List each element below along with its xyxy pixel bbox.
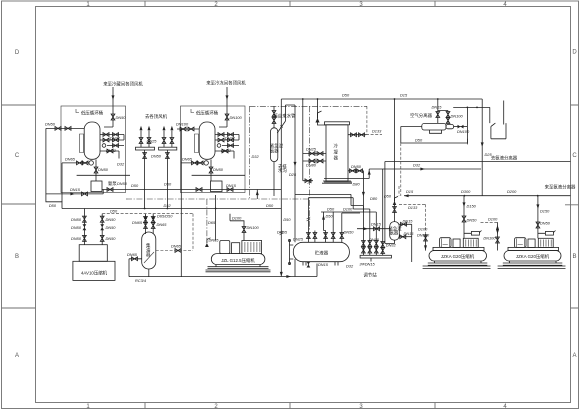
drop pipe left of unit2 xyxy=(180,129,182,277)
manifold drop xyxy=(370,258,372,262)
V2 DN65 drain valves xyxy=(181,161,204,165)
ammonia pump P2 xyxy=(211,181,223,192)
svg-text:A: A xyxy=(572,353,576,359)
release vessel right mid line xyxy=(399,235,411,239)
ammonia pump P1 xyxy=(91,181,102,192)
svg-text:D32: D32 xyxy=(346,264,354,269)
header to regulator area xyxy=(321,211,376,213)
riser to header e xyxy=(342,213,360,231)
pipe drop to unit 2 xyxy=(219,87,229,127)
svg-text:DN32: DN32 xyxy=(106,148,117,153)
G12.5 discharge riser DN100 xyxy=(230,214,246,241)
svg-text:空气分离器: 空气分离器 xyxy=(410,112,433,119)
svg-text:D100: D100 xyxy=(232,216,242,221)
unit 1 label 低压循环桶 xyxy=(76,109,104,117)
V1 left inlet DN50 valves xyxy=(46,126,84,130)
liquid receiver 贮液器 xyxy=(293,242,349,261)
left standpipe to suction main xyxy=(46,128,62,208)
svg-text:D200: D200 xyxy=(507,189,517,194)
regulator column 4 xyxy=(381,169,385,255)
svg-text:DN65: DN65 xyxy=(65,157,76,162)
svg-text:DN25: DN25 xyxy=(147,139,158,144)
svg-text:C: C xyxy=(15,153,20,159)
svg-text:DN50: DN50 xyxy=(467,218,478,223)
air separator drop from header xyxy=(436,99,450,124)
air separator right outlet valve xyxy=(454,125,468,129)
vessel slant connection xyxy=(277,105,296,194)
svg-text:DN65: DN65 xyxy=(127,252,138,257)
unit 2 label 低压循环桶 xyxy=(191,109,219,117)
vessel V1 low-pressure circulation drum xyxy=(84,122,100,159)
unit 1 enclosure box xyxy=(61,106,126,193)
condenser right outlet DN50 xyxy=(348,169,365,212)
svg-text:DN50: DN50 xyxy=(351,164,362,169)
left zone ticks xyxy=(2,105,36,308)
G20 no.1 suction drop D150 xyxy=(462,196,466,239)
svg-text:D15: D15 xyxy=(406,189,414,194)
P1 discharge line xyxy=(102,188,281,192)
condenser equalizing line D133 xyxy=(348,133,382,137)
svg-text:DN32: DN32 xyxy=(225,136,236,141)
equalize riser with arrow xyxy=(322,212,326,231)
V2 level gauge xyxy=(195,134,199,153)
svg-text:DN15: DN15 xyxy=(432,105,443,110)
dash-dot machine-room boundary horizontal xyxy=(250,105,368,107)
water tank xyxy=(491,101,506,139)
svg-text:DN50: DN50 xyxy=(106,225,117,230)
svg-text:冷: 冷 xyxy=(334,143,339,150)
svg-text:D32: D32 xyxy=(117,162,125,167)
svg-text:氨器: 氨器 xyxy=(390,229,399,236)
svg-text:DN100: DN100 xyxy=(483,236,496,241)
label 紧急泄氨器 on vessel xyxy=(270,143,284,155)
4AV10 valve column right xyxy=(100,214,104,245)
condenser left DN80 line xyxy=(303,159,326,163)
svg-text:D32: D32 xyxy=(413,163,421,168)
receiver top stub c xyxy=(324,231,328,243)
receiver drain xyxy=(281,262,317,279)
svg-text:DN50: DN50 xyxy=(540,221,551,226)
riser to header d xyxy=(332,212,334,231)
receiver inlet riser D50 xyxy=(294,194,296,242)
svg-text:D100: D100 xyxy=(418,227,428,232)
svg-text:2: 2 xyxy=(214,2,218,8)
manifold drop valves xyxy=(143,150,147,209)
svg-text:B: B xyxy=(572,254,576,260)
svg-text:D50: D50 xyxy=(326,214,334,219)
receiver top stub d xyxy=(331,231,335,243)
svg-text:DN15: DN15 xyxy=(403,218,414,223)
svg-text:D50: D50 xyxy=(266,203,274,208)
angle valve on G12.5 xyxy=(205,238,211,247)
svg-text:1: 1 xyxy=(86,2,90,8)
svg-text:A: A xyxy=(15,353,19,359)
svg-text:DN50: DN50 xyxy=(106,236,117,241)
V1 right valve cluster xyxy=(100,133,124,159)
labels DN50 right column xyxy=(106,217,117,241)
svg-text:接自来水管: 接自来水管 xyxy=(274,113,297,120)
svg-text:DN50: DN50 xyxy=(45,122,56,127)
P2 left valve xyxy=(196,188,202,192)
compressor discharge riser xyxy=(280,99,284,277)
svg-text:B: B xyxy=(15,254,19,260)
screw compressor JZKA G20 no.1 xyxy=(423,238,491,269)
air separator body xyxy=(422,123,454,133)
G12.5 suction drop xyxy=(215,195,217,241)
svg-text:DN32: DN32 xyxy=(221,148,232,153)
riser to water tank xyxy=(453,107,490,145)
svg-text:D150: D150 xyxy=(467,204,477,209)
svg-text:去各顶风机: 去各顶风机 xyxy=(145,113,168,120)
svg-text:凝: 凝 xyxy=(334,149,339,156)
drain barrel top valves xyxy=(272,106,276,128)
svg-text:D15: D15 xyxy=(400,93,408,98)
dash-dot boundary vertical mid xyxy=(308,106,310,230)
oil collector right dashed line xyxy=(156,249,193,253)
dashed drop from loop xyxy=(400,143,402,196)
descending line from separator header xyxy=(384,162,386,244)
oil collector 集油器 xyxy=(142,232,156,269)
labels DN50 left column xyxy=(71,217,82,241)
svg-text:DN50: DN50 xyxy=(117,181,128,186)
svg-text:来至冷冻间各顶风机: 来至冷冻间各顶风机 xyxy=(206,80,246,87)
fan riser 1 xyxy=(139,126,143,148)
svg-text:DN15: DN15 xyxy=(226,183,237,188)
svg-text:D50: D50 xyxy=(415,138,423,143)
discharge header to condenser xyxy=(281,98,482,100)
V1 bottom outlet to pump xyxy=(77,160,130,182)
fan riser 4 xyxy=(170,126,174,148)
svg-text:D133: D133 xyxy=(372,129,382,134)
riser with break marks xyxy=(307,198,311,231)
svg-text:DN100: DN100 xyxy=(457,129,470,134)
unit 2 enclosure box xyxy=(181,106,246,193)
V1 DN65 drain valves xyxy=(62,161,89,202)
svg-text:去氨液分离器: 去氨液分离器 xyxy=(491,155,518,162)
screw compressor JZKA G20 no.2 xyxy=(498,238,566,269)
svg-text:D100: D100 xyxy=(343,207,353,212)
top zone ticks xyxy=(145,1,435,7)
bottom zone ticks xyxy=(145,403,435,409)
P2 discharge valve xyxy=(227,188,233,192)
svg-text:D65: D65 xyxy=(208,220,216,225)
svg-text:DN15: DN15 xyxy=(369,237,380,242)
svg-text:D50: D50 xyxy=(164,182,172,187)
svg-text:D133: D133 xyxy=(408,205,418,210)
second liquid run xyxy=(385,161,571,163)
svg-text:DN65: DN65 xyxy=(277,230,288,235)
label 去排水沟 xyxy=(278,163,287,174)
svg-text:D50: D50 xyxy=(283,217,291,222)
G20 no.1 suction dashed D133 xyxy=(399,204,427,250)
svg-text:水沟: 水沟 xyxy=(278,167,287,174)
svg-text:DN65: DN65 xyxy=(132,220,143,225)
fan riser 2 xyxy=(147,126,151,148)
main suction run D50 xyxy=(62,208,281,210)
dash-dot boundary low horizontal xyxy=(126,198,309,200)
condenser left DN25 line xyxy=(303,152,326,156)
svg-text:DN100: DN100 xyxy=(230,115,243,120)
pipe drop to unit 1 xyxy=(104,87,115,127)
hot gas drop with safety valve xyxy=(393,99,398,222)
receiver top stub a xyxy=(307,231,311,243)
oil collector label xyxy=(146,242,151,258)
G20 no.2 suction drop D150 xyxy=(536,196,540,239)
fan manifold bars xyxy=(136,147,155,150)
svg-text:D80: D80 xyxy=(353,182,361,187)
oil drain line RC3/4 xyxy=(129,259,295,277)
regulator column 3 xyxy=(374,212,378,255)
svg-text:D25: D25 xyxy=(289,172,297,177)
svg-text:D65/D50: D65/D50 xyxy=(157,213,173,218)
svg-text:DN50: DN50 xyxy=(213,167,224,172)
svg-text:4: 4 xyxy=(503,2,507,8)
svg-text:2: 2 xyxy=(214,404,218,410)
svg-text:器: 器 xyxy=(334,156,339,162)
condenser drain stub xyxy=(303,161,313,183)
svg-text:D32: D32 xyxy=(252,154,260,159)
svg-text:3: 3 xyxy=(359,2,363,8)
dash-dot boundary vertical left xyxy=(249,106,251,199)
receiver top stub b xyxy=(313,231,317,243)
piston compressor 4AV10 xyxy=(73,245,115,281)
svg-text:D50: D50 xyxy=(342,93,350,98)
G20 no.2 inlet fitting xyxy=(538,231,556,236)
svg-text:DN50: DN50 xyxy=(71,225,82,230)
condenser inlet drop xyxy=(302,99,304,161)
receiver level gauge xyxy=(288,239,293,264)
D32 line with arrow xyxy=(369,168,481,171)
svg-text:DN65: DN65 xyxy=(157,222,168,227)
svg-text:D50: D50 xyxy=(327,207,335,212)
receiver legs xyxy=(303,262,338,266)
G20 no.1 inlet fitting xyxy=(464,231,482,236)
svg-text:D50: D50 xyxy=(49,203,57,208)
vessel V2 low-pressure circulation drum xyxy=(199,122,215,159)
svg-text:1: 1 xyxy=(86,404,90,410)
svg-text:D32: D32 xyxy=(164,203,172,208)
right zone ticks xyxy=(565,105,579,308)
oil collector top valves xyxy=(144,214,148,234)
svg-text:DN50: DN50 xyxy=(344,230,355,235)
regulating station manifold xyxy=(360,255,391,258)
emergency ammonia release vessel 紧急泄氨器 xyxy=(390,222,400,241)
label 紧急泄氨器 xyxy=(389,226,403,237)
svg-text:DN65: DN65 xyxy=(209,238,220,243)
svg-text:D25: D25 xyxy=(485,152,493,157)
liquid lines under condenser xyxy=(324,169,371,182)
svg-text:DN50: DN50 xyxy=(106,217,117,222)
V2 right valve cluster xyxy=(215,133,239,159)
receiver top stub e xyxy=(340,231,344,243)
svg-text:JZKA G20压缩机: JZKA G20压缩机 xyxy=(516,253,550,260)
svg-text:低压循环桶: 低压循环桶 xyxy=(196,110,219,117)
svg-text:DN32: DN32 xyxy=(386,243,397,248)
drain barrel bottom pipe xyxy=(273,162,275,196)
V2 left inlet DN100 valves xyxy=(177,127,199,131)
svg-text:DN100: DN100 xyxy=(417,232,430,237)
drain barrel 排液桶 xyxy=(271,128,278,162)
svg-text:器: 器 xyxy=(146,252,151,258)
svg-text:3: 3 xyxy=(359,404,363,410)
svg-text:DN100: DN100 xyxy=(451,114,464,119)
svg-text:DN100: DN100 xyxy=(247,225,260,230)
liquid run to separator right xyxy=(295,194,353,209)
condenser 冷凝器 xyxy=(322,122,352,183)
safety valve on condenser xyxy=(315,99,326,125)
P1 left drain DN15 xyxy=(46,190,103,196)
svg-text:DN50: DN50 xyxy=(71,217,82,222)
screw compressor JZL G12.5 xyxy=(206,241,271,272)
svg-text:DN15: DN15 xyxy=(404,231,415,236)
svg-text:C: C xyxy=(572,153,577,159)
release vessel bottom connection xyxy=(385,240,395,243)
dashed oil line xyxy=(206,199,208,243)
V2 bottom outlet to pump xyxy=(192,160,245,182)
svg-text:贮液器: 贮液器 xyxy=(315,250,329,257)
D25 blowdown line xyxy=(481,99,484,196)
svg-text:D100: D100 xyxy=(488,217,498,222)
dashed riser to boundary xyxy=(366,106,368,134)
dashed hot-gas line D50 xyxy=(102,214,193,251)
svg-text:JZL G12.5压缩机: JZL G12.5压缩机 xyxy=(221,257,255,264)
4AV10 valve column left xyxy=(83,209,87,245)
release vessel right top line xyxy=(399,222,411,262)
liquid feed into release vessel DN15 xyxy=(357,227,390,231)
svg-text:D: D xyxy=(15,50,20,56)
svg-text:DN50: DN50 xyxy=(71,236,82,241)
svg-text:氨泵: 氨泵 xyxy=(108,180,117,187)
svg-text:DN50: DN50 xyxy=(116,115,127,120)
svg-text:DN15: DN15 xyxy=(318,262,329,267)
svg-text:D: D xyxy=(572,50,577,56)
svg-text:氨器: 氨器 xyxy=(270,147,279,154)
svg-text:D300: D300 xyxy=(461,189,471,194)
svg-text:D150: D150 xyxy=(540,209,550,214)
svg-text:调节站: 调节站 xyxy=(363,272,377,279)
svg-text:DN15: DN15 xyxy=(70,187,81,192)
svg-text:DN80: DN80 xyxy=(306,163,317,168)
svg-text:DN65: DN65 xyxy=(182,157,193,162)
svg-text:D50: D50 xyxy=(110,209,118,214)
V1 level gauge xyxy=(80,134,84,153)
svg-text:DN100: DN100 xyxy=(176,122,189,127)
svg-text:D50: D50 xyxy=(131,183,139,188)
air separator bottom loop D50 xyxy=(401,127,468,144)
svg-text:DN25: DN25 xyxy=(306,147,317,152)
G20 no.2 suction dashed D100 xyxy=(481,222,500,250)
svg-text:DN50: DN50 xyxy=(98,167,109,172)
dashed stub to header xyxy=(398,186,400,196)
condenser label xyxy=(334,143,339,162)
svg-text:DN32: DN32 xyxy=(110,136,121,141)
regulator column 1 xyxy=(351,206,365,256)
svg-text:4AV10压缩机: 4AV10压缩机 xyxy=(81,270,108,277)
oil collector left valve xyxy=(129,257,142,277)
svg-text:DN65: DN65 xyxy=(171,244,182,249)
regulator column 2 xyxy=(353,209,371,255)
svg-text:RC3/4: RC3/4 xyxy=(135,278,147,283)
svg-text:DN50: DN50 xyxy=(151,154,162,159)
svg-text:JZKA G20压缩机: JZKA G20压缩机 xyxy=(441,253,475,260)
svg-text:D80: D80 xyxy=(370,196,378,201)
svg-text:低压循环桶: 低压循环桶 xyxy=(81,110,104,117)
svg-text:来至冷藏间各顶风机: 来至冷藏间各顶风机 xyxy=(103,81,143,88)
fan riser 3 xyxy=(162,126,166,148)
liquid make-up riser xyxy=(256,190,259,200)
svg-text:来至氨液分离器: 来至氨液分离器 xyxy=(545,184,576,191)
suction header from ammonia separator xyxy=(404,194,571,197)
svg-text:4: 4 xyxy=(503,404,507,410)
svg-text:3ΦDN15: 3ΦDN15 xyxy=(359,262,375,267)
